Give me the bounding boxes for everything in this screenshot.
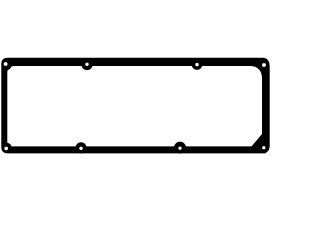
- boss bottom-right: [258, 142, 269, 153]
- hole bottom-right: [262, 146, 265, 149]
- boss top-left: [1, 59, 11, 69]
- inner boss bump top-left: [2, 61, 12, 71]
- inner cutout: [7, 66, 262, 146]
- hole top-left: [4, 62, 8, 66]
- inner boss bump bottom-left: [2, 143, 12, 153]
- gasket outer body: [1, 58, 269, 154]
- hole top-mid-right: [195, 63, 198, 66]
- hole top-right: [262, 63, 266, 67]
- boss bottom-left: [2, 143, 12, 153]
- boss top-right: [259, 59, 270, 70]
- inner boss bump bottom-mid-right: [174, 142, 186, 154]
- boss top-mid-right: [192, 59, 203, 70]
- hole bottom-mid-right: [178, 147, 181, 150]
- boss bottom-mid-left: [76, 142, 87, 153]
- gasket photo: [0, 0, 270, 213]
- inner boss bump top-mid-left: [81, 59, 92, 70]
- hole bottom-left: [4, 147, 8, 151]
- boss top-mid-left: [81, 59, 92, 70]
- inner boss bump top-mid-right: [192, 59, 203, 70]
- boss bottom-mid-right: [174, 142, 186, 154]
- hole top-mid-left: [85, 63, 88, 66]
- hole bottom-mid-left: [79, 147, 82, 150]
- inner boss bump bottom-mid-left: [76, 142, 87, 153]
